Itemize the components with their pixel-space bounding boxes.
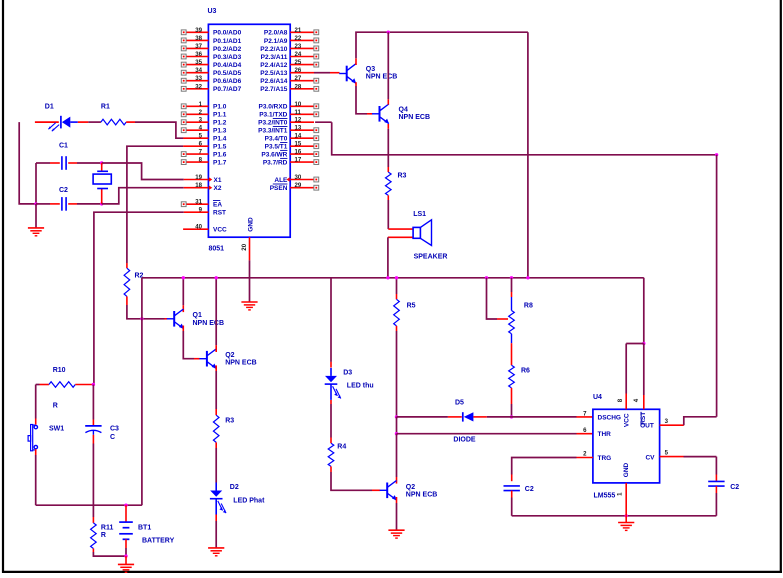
- wire Q4 emitter to R3: [387, 124, 389, 129]
- resistor R1: [101, 119, 126, 125]
- wire C1 to crystal junction: [68, 162, 77, 164]
- svg-text:19: 19: [195, 174, 202, 181]
- wire battery bottom: [125, 539, 127, 548]
- svg-text:R10: R10: [53, 367, 66, 374]
- svg-text:P0.0/AD0: P0.0/AD0: [213, 30, 242, 37]
- crystal: [93, 174, 111, 184]
- svg-text:D3: D3: [343, 370, 352, 377]
- svg-text:R8: R8: [524, 302, 533, 309]
- wire D1 to R1: [78, 121, 89, 123]
- svg-text:35: 35: [195, 59, 202, 66]
- wire D5 row left: [397, 416, 448, 418]
- svg-text:Q3: Q3: [366, 66, 375, 73]
- svg-text:U3: U3: [208, 8, 217, 15]
- node R8 top bus: [510, 276, 513, 279]
- wire CV pin5: [660, 456, 684, 458]
- svg-text:P0.4/AD4: P0.4/AD4: [213, 62, 242, 69]
- svg-text:C2: C2: [525, 486, 534, 493]
- svg-text:37: 37: [195, 43, 202, 50]
- ground under C1C2: [35, 204, 37, 228]
- transistor Q1: [165, 318, 168, 320]
- svg-text:31: 31: [195, 199, 202, 206]
- wire R8 top: [511, 278, 513, 292]
- svg-text:TRG: TRG: [598, 455, 612, 462]
- pin 38 P0.1/AD1: [186, 39, 208, 41]
- wire RST to R10 junction: [94, 212, 184, 384]
- svg-text:P1.0: P1.0: [213, 104, 227, 111]
- node THR row left: [395, 432, 398, 435]
- wire U4 pin8 VCC stub: [625, 394, 627, 410]
- pin 14 P3.4/T0: [290, 137, 314, 139]
- svg-text:P1.3: P1.3: [213, 128, 227, 135]
- svg-text:11: 11: [295, 109, 302, 116]
- svg-text:GND: GND: [247, 217, 254, 232]
- svg-text:GND: GND: [623, 462, 630, 477]
- svg-text:LED thu: LED thu: [347, 383, 374, 390]
- wire battery to ground: [125, 556, 127, 564]
- svg-text:P2.7/A15: P2.7/A15: [260, 86, 287, 93]
- pin 16 P3.6/WR: [290, 153, 314, 155]
- svg-text:LS1: LS1: [413, 211, 426, 218]
- pin 40 VCC: [183, 228, 208, 230]
- pin 24 P2.3/A11: [290, 56, 314, 58]
- pin 37 P0.2/AD2: [186, 47, 208, 49]
- svg-text:ALE: ALE: [274, 177, 288, 184]
- resistor R8: [509, 311, 515, 334]
- svg-text:13: 13: [295, 125, 302, 132]
- svg-text:P2.0/A8: P2.0/A8: [264, 30, 288, 37]
- wire P3.2 to 555 OUT: [315, 121, 332, 123]
- node R10 C3 RST junction: [92, 383, 95, 386]
- wire R2 bottom to Q1 base row: [127, 305, 165, 319]
- pin 25 P2.4/A12: [290, 64, 314, 66]
- wire D3 top: [330, 278, 332, 362]
- wire left C2 bottom: [511, 491, 513, 498]
- pin 39 P0.0/AD0: [186, 31, 208, 33]
- wire P1.5 to R2 top: [127, 146, 183, 263]
- pin 18 X2: [184, 187, 209, 189]
- svg-text:P0.1/AD1: P0.1/AD1: [213, 38, 242, 45]
- svg-text:Q2: Q2: [225, 352, 234, 359]
- svg-text:P3.0/RXD: P3.0/RXD: [258, 104, 287, 111]
- svg-text:LED Phat: LED Phat: [233, 497, 265, 504]
- wire speaker to bus: [387, 237, 389, 277]
- led D1: [60, 116, 62, 129]
- node Q1 collector bus: [182, 276, 185, 279]
- wire OUT pin3: [660, 424, 684, 426]
- svg-text:21: 21: [295, 27, 302, 34]
- node crystal bottom: [100, 202, 103, 205]
- node pin8 pin4 junction: [642, 342, 645, 345]
- transistor Q3: [346, 66, 348, 82]
- crystal X1 stubs: [101, 163, 103, 171]
- svg-text:24: 24: [295, 51, 302, 58]
- pin 21 P2.0/A8: [290, 31, 314, 33]
- wire R8 tap: [487, 278, 498, 319]
- pin 31 EA: [186, 203, 208, 205]
- svg-text:10: 10: [295, 101, 302, 108]
- svg-text:NPN ECB: NPN ECB: [399, 114, 431, 121]
- svg-text:R1: R1: [101, 104, 110, 111]
- svg-text:P1.2: P1.2: [213, 120, 227, 127]
- node top vertical bus: [526, 276, 529, 279]
- node Q1 base junction: [140, 317, 143, 320]
- svg-text:BT1: BT1: [138, 525, 151, 532]
- wire R8 to R6: [511, 334, 513, 343]
- svg-text:P0.2/AD2: P0.2/AD2: [213, 46, 242, 53]
- pin 17 P3.7/RD: [290, 161, 314, 163]
- svg-text:39: 39: [195, 27, 202, 34]
- resistor R4: [328, 443, 334, 466]
- ground left: [28, 227, 44, 229]
- wire R3 to speaker: [387, 195, 389, 200]
- wire R3 to D2: [215, 442, 217, 448]
- svg-text:D5: D5: [455, 400, 464, 407]
- svg-text:VCC: VCC: [623, 413, 630, 427]
- capacitor C2 right: [708, 480, 724, 482]
- wire C3 top: [92, 385, 94, 420]
- svg-text:NPN ECB: NPN ECB: [366, 74, 398, 81]
- svg-text:R11: R11: [101, 525, 114, 532]
- IC U4 LM555 body: [593, 409, 660, 483]
- resistor R2: [124, 268, 130, 296]
- svg-text:D2: D2: [230, 484, 239, 491]
- speaker LS1: [413, 227, 420, 238]
- svg-text:Q4: Q4: [399, 106, 408, 113]
- svg-text:32: 32: [195, 83, 202, 90]
- svg-text:P2.6/A14: P2.6/A14: [260, 78, 287, 85]
- sheet border: [2, 0, 4, 573]
- node R6 D5 row: [510, 415, 513, 418]
- svg-text:P2.2/A10: P2.2/A10: [260, 46, 287, 53]
- wire R4 to Q2 base: [330, 466, 332, 472]
- svg-text:P0.7/AD7: P0.7/AD7: [213, 86, 242, 93]
- svg-text:NPN ECB: NPN ECB: [406, 491, 438, 498]
- node speaker bus: [386, 276, 389, 279]
- svg-text:EA: EA: [213, 202, 222, 209]
- wire D3 to R4: [330, 400, 332, 404]
- wire R10 right to junction: [75, 384, 93, 386]
- pin 27 P2.6/A14: [290, 80, 314, 82]
- svg-text:30: 30: [295, 174, 302, 181]
- svg-text:P3.7/RD: P3.7/RD: [263, 160, 288, 167]
- svg-text:Q2: Q2: [406, 484, 415, 491]
- transistor Q4: [379, 106, 381, 122]
- svg-text:LM555: LM555: [594, 492, 616, 499]
- svg-text:16: 16: [295, 149, 302, 156]
- wire U3 GND to ground: [249, 260, 251, 302]
- pin 29 PSEN: [290, 187, 314, 189]
- pin 6 P1.5: [183, 145, 208, 147]
- wire main bus: [142, 277, 644, 279]
- svg-text:P3.2/INT0: P3.2/INT0: [258, 120, 288, 127]
- wire to THR row: [396, 417, 398, 434]
- svg-text:P0.3/AD3: P0.3/AD3: [213, 54, 242, 61]
- svg-text:P0.6/AD6: P0.6/AD6: [213, 78, 242, 85]
- wire left vertical C1-C2: [35, 163, 37, 204]
- svg-text:12: 12: [295, 117, 302, 124]
- wire C2 row left: [36, 203, 50, 205]
- svg-text:23: 23: [295, 43, 302, 50]
- wire D1 left stub: [35, 121, 59, 123]
- svg-text:C: C: [110, 434, 115, 441]
- svg-text:P2.1/A9: P2.1/A9: [264, 38, 288, 45]
- ground under battery: [118, 563, 134, 565]
- svg-text:P1.4: P1.4: [213, 136, 227, 143]
- wire Q2 lower emitter: [396, 497, 398, 503]
- svg-text:P3.1/TXD: P3.1/TXD: [259, 112, 287, 119]
- svg-text:P1.6: P1.6: [213, 152, 227, 159]
- svg-text:14: 14: [295, 133, 302, 140]
- ground under U3: [241, 301, 257, 303]
- pin 28 P2.7/A15: [290, 88, 314, 90]
- svg-text:R6: R6: [521, 367, 530, 374]
- wire Q3 collector to top wire: [355, 58, 357, 65]
- wire right C2 bottom: [715, 486, 717, 493]
- svg-text:VCC: VCC: [213, 227, 227, 234]
- capacitor C3: [85, 425, 101, 427]
- svg-text:17: 17: [295, 157, 302, 164]
- wire R10 left: [36, 384, 40, 386]
- svg-text:P0.5/AD5: P0.5/AD5: [213, 70, 242, 77]
- svg-text:DIODE: DIODE: [453, 436, 476, 443]
- svg-text:R5: R5: [407, 303, 416, 310]
- node battery ground junction: [124, 554, 127, 557]
- wire R5 to D5 row: [396, 326, 398, 331]
- wire bus right end down: [643, 278, 645, 344]
- svg-text:U4: U4: [593, 394, 602, 401]
- wire Q1 emitter to Q2 base: [182, 326, 184, 332]
- wire battery top stub: [125, 505, 127, 522]
- svg-text:C3: C3: [110, 426, 119, 433]
- pin 1 P1.0: [186, 105, 208, 107]
- node R8 tap bus: [485, 276, 488, 279]
- svg-text:34: 34: [195, 67, 202, 74]
- node C2 row left: [34, 202, 37, 205]
- wire left vertical from D1 row: [19, 122, 35, 204]
- wire pin26 to Q3 base: [314, 72, 330, 74]
- svg-text:RST: RST: [213, 210, 226, 217]
- wire U4 pin4 stub: [643, 344, 645, 396]
- wire R10 to SW1: [35, 385, 37, 419]
- wire SW1 to bottom row: [35, 449, 37, 455]
- pin 13 P3.3/INT1: [290, 129, 314, 131]
- pin 11 P3.1/TXD: [290, 113, 314, 115]
- resistor R5: [394, 299, 400, 326]
- svg-text:C2: C2: [59, 187, 68, 194]
- svg-text:28: 28: [295, 83, 302, 90]
- resistor R2 bottom lead: [126, 296, 128, 305]
- wire R5 top: [396, 278, 398, 294]
- svg-text:R3: R3: [398, 173, 407, 180]
- svg-text:P3.5/T1: P3.5/T1: [265, 144, 288, 151]
- pin 19 X1: [184, 179, 209, 181]
- pin 22 P2.1/A9: [290, 39, 314, 41]
- svg-text:R: R: [101, 532, 106, 539]
- wire Q2 collector: [215, 278, 217, 345]
- svg-text:P2.5/A13: P2.5/A13: [260, 70, 287, 77]
- resistor R3 lower: [213, 415, 219, 442]
- pin 30 ALE: [290, 179, 314, 181]
- pin 7 P1.6: [186, 153, 208, 155]
- node R5 bus: [395, 276, 398, 279]
- pin 34 P0.5/AD5: [186, 72, 208, 74]
- pin 33 P0.6/AD6: [186, 80, 208, 82]
- svg-text:CV: CV: [645, 454, 655, 461]
- wire R1 to P1.4 pin5: [126, 121, 135, 123]
- IC U3 8051 body: [208, 24, 290, 237]
- svg-text:NPN ECB: NPN ECB: [193, 320, 225, 327]
- svg-text:R4: R4: [337, 443, 346, 450]
- wire speaker bottom lead: [388, 236, 413, 238]
- wire C1 row to X1: [102, 163, 184, 180]
- svg-text:BATTERY: BATTERY: [142, 538, 175, 545]
- switch SW1: [34, 425, 37, 428]
- diode D5: [462, 412, 464, 421]
- resistor R10: [49, 382, 75, 388]
- svg-text:DSCHG: DSCHG: [598, 414, 621, 421]
- wire bus left end down: [141, 278, 143, 319]
- wire U4 GND stem: [625, 483, 627, 516]
- wire Q3 emitter to Q4 base: [355, 82, 357, 86]
- svg-text:OUT: OUT: [640, 423, 654, 430]
- svg-text:25: 25: [295, 59, 302, 66]
- led D2: [215, 483, 217, 491]
- svg-text:40: 40: [195, 224, 202, 231]
- svg-text:20: 20: [241, 243, 248, 250]
- pin 32 P0.7/AD7: [186, 88, 208, 90]
- wire OUT riser: [716, 155, 718, 417]
- node crystal top: [100, 161, 103, 164]
- pin 10 P3.0/RXD: [290, 105, 314, 107]
- node OUT riser corner: [715, 153, 718, 156]
- wire junction to pin8: [626, 343, 644, 345]
- ground under U4: [618, 522, 634, 524]
- svg-text:P1.1: P1.1: [213, 112, 227, 119]
- wire to Q2 collector: [396, 434, 398, 477]
- svg-text:22: 22: [295, 35, 302, 42]
- wire bus-left vertical to bottom row: [141, 319, 143, 505]
- pin 36 P0.3/AD3: [186, 56, 208, 58]
- ground under D2: [208, 547, 224, 549]
- wire R11 to ground row: [92, 549, 94, 553]
- svg-text:15: 15: [295, 141, 302, 148]
- resistor R6: [509, 365, 515, 388]
- transistor Q2 upper: [206, 351, 208, 367]
- node Q2 collector bus: [215, 276, 218, 279]
- svg-text:4: 4: [633, 398, 640, 402]
- svg-text:P3.6/WR: P3.6/WR: [261, 152, 287, 159]
- wire Q4 collector: [387, 99, 389, 104]
- svg-text:33: 33: [195, 75, 202, 82]
- svg-text:D1: D1: [45, 104, 54, 111]
- svg-text:P1.7: P1.7: [213, 160, 227, 167]
- wire C1 row left: [36, 162, 50, 164]
- svg-text:R: R: [53, 402, 58, 409]
- node Q4 collector top: [387, 31, 390, 34]
- resistor R11: [91, 523, 97, 549]
- svg-text:P2.4/A12: P2.4/A12: [260, 62, 287, 69]
- pin 15 P3.5/T1: [290, 145, 314, 147]
- wire speaker top lead: [388, 228, 413, 230]
- pin 35 P0.4/AD4: [186, 64, 208, 66]
- wire Q1 collector: [182, 278, 184, 306]
- wire D5 to DSCHG: [473, 416, 486, 418]
- svg-text:P3.3/INT1: P3.3/INT1: [258, 128, 288, 135]
- led D3: [330, 368, 332, 376]
- node battery top junction: [124, 504, 127, 507]
- svg-text:X2: X2: [214, 185, 222, 192]
- svg-text:PSEN: PSEN: [270, 185, 288, 192]
- wire U4 gnd to symbol: [625, 516, 627, 523]
- ground under Q2 lower: [388, 529, 404, 531]
- pin 23 P2.2/A10: [290, 47, 314, 49]
- svg-text:36: 36: [195, 51, 202, 58]
- svg-text:C1: C1: [59, 143, 68, 150]
- wire ground bus: [512, 515, 717, 517]
- wire top right vertical to bus: [527, 32, 529, 278]
- svg-text:38: 38: [195, 35, 202, 42]
- wire crystal bottom to X2: [102, 188, 184, 204]
- node U4 gnd junction: [625, 514, 628, 517]
- svg-text:R3: R3: [225, 418, 234, 425]
- pin 3 P1.2: [186, 121, 208, 123]
- node D5 row left: [395, 415, 398, 418]
- wire U4 TRG net: [577, 457, 593, 459]
- wire right C2 top: [715, 457, 717, 475]
- battery BT1: [119, 521, 133, 523]
- transistor Q2 lower: [386, 483, 388, 499]
- svg-text:Q1: Q1: [193, 312, 202, 319]
- wire C3 to R11: [92, 435, 94, 444]
- resistor R3 upper: [386, 172, 392, 195]
- svg-text:8051: 8051: [209, 246, 225, 253]
- svg-text:C2: C2: [730, 484, 739, 491]
- wire D2 to ground: [215, 515, 217, 522]
- pin 8 P1.7: [186, 161, 208, 163]
- svg-text:P3.4/T0: P3.4/T0: [265, 136, 288, 143]
- capacitor C2: [61, 197, 63, 211]
- capacitor C2 left: [504, 485, 520, 487]
- svg-text:27: 27: [295, 75, 302, 82]
- P3 label overlines: [273, 118, 288, 120]
- svg-text:18: 18: [195, 182, 202, 189]
- pin 5 P1.4: [183, 137, 208, 139]
- svg-text:29: 29: [295, 182, 302, 189]
- pin 2 P1.1: [186, 113, 208, 115]
- svg-text:P2.3/A11: P2.3/A11: [261, 54, 288, 61]
- wire Q2 emitter to R3: [215, 365, 217, 371]
- capacitor C1: [61, 156, 63, 170]
- svg-text:P1.5: P1.5: [213, 144, 227, 151]
- resistor R2 top lead: [126, 263, 128, 268]
- pin 4 P1.3: [186, 129, 208, 131]
- svg-text:26: 26: [295, 67, 302, 74]
- wire THR row: [397, 433, 577, 435]
- pin 12 P3.2/INT0: [290, 121, 314, 123]
- svg-text:X1: X1: [214, 177, 222, 184]
- wire R6 to D5 row: [511, 388, 513, 404]
- svg-text:SW1: SW1: [49, 426, 64, 433]
- pin 9 RST: [184, 211, 209, 213]
- svg-text:SPEAKER: SPEAKER: [414, 254, 448, 261]
- svg-text:NPN ECB: NPN ECB: [225, 360, 257, 367]
- svg-text:THR: THR: [598, 431, 612, 438]
- wire C2 to crystal bottom: [68, 203, 77, 205]
- pin 26 P2.5/A13: [290, 72, 314, 74]
